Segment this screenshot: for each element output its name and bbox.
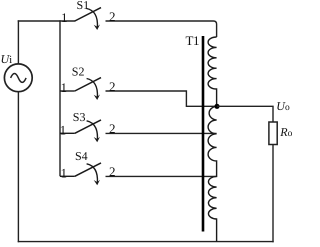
transformer T1 winding [208,37,217,242]
wire S4 contact 2 to winding tap [106,175,217,177]
junction node (tap to Uo) [214,104,219,109]
wire tap to output [217,106,273,122]
svg-text:1: 1 [61,80,68,95]
wire S2 contact 2 to winding tap (with jog) [106,91,218,106]
svg-text:1: 1 [60,122,67,137]
svg-text:T1: T1 [186,33,199,48]
svg-text:2: 2 [109,121,116,136]
svg-text:S4: S4 [75,149,88,163]
switch S3 [60,120,101,142]
svg-text:1: 1 [61,165,68,180]
wire S1 contact 2 to transformer top [106,21,217,37]
switch S1 [75,8,101,30]
switch S4 [60,163,101,185]
svg-text:S1: S1 [77,0,90,12]
wire resistor to bottom [272,145,274,243]
switch S2 [60,78,101,100]
svg-text:1: 1 [61,10,68,25]
svg-text:Ro: Ro [279,125,292,139]
wire S3 contact 2 to winding tap [106,132,217,134]
transformer T1 core [202,36,205,232]
svg-text:S3: S3 [73,110,86,124]
wire bottom [18,241,274,243]
svg-text:Ui: Ui [1,52,13,66]
svg-text:S2: S2 [72,65,85,79]
svg-text:2: 2 [109,9,116,24]
wire left vertical lower (source to bottom wire) [17,92,19,243]
wire bus vertical [59,20,61,176]
svg-text:2: 2 [109,164,116,179]
resistor Ro [269,122,277,145]
wire left vertical upper (source to top wire) [17,20,19,64]
wire top from source to S1 contact 1 [18,20,76,22]
svg-text:Uo: Uo [276,99,290,113]
svg-text:2: 2 [109,79,116,94]
AC source Ui [4,64,32,92]
